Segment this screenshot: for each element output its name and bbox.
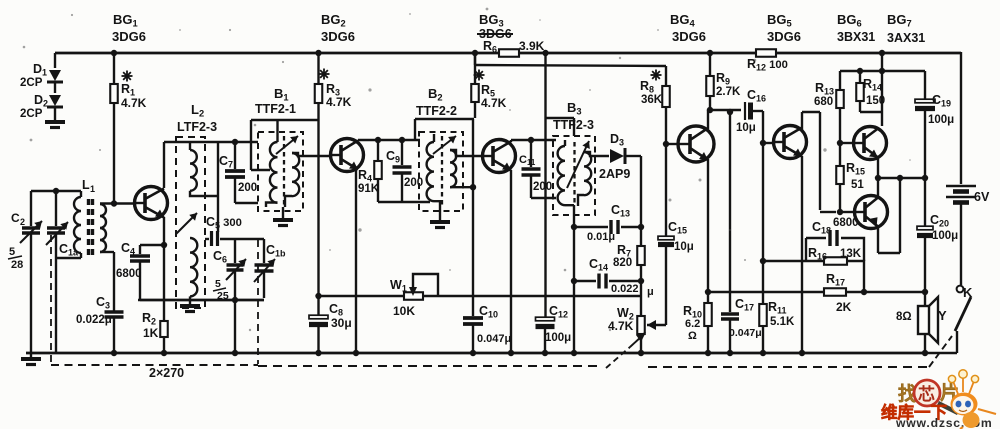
svg-text:5.1K: 5.1K bbox=[770, 316, 795, 328]
wire collector tap down to C5 bbox=[217, 142, 219, 232]
dashed link volume switch line bbox=[258, 365, 601, 367]
svg-text:4.7K: 4.7K bbox=[121, 96, 147, 110]
resistor R5 4.7K bbox=[474, 53, 476, 84]
svg-text:5: 5 bbox=[215, 278, 221, 290]
capacitor C14 0.022u bbox=[574, 280, 596, 282]
svg-text:4.7K: 4.7K bbox=[608, 319, 634, 333]
svg-text:TTF2-3: TTF2-3 bbox=[553, 118, 594, 132]
svg-text:0.01μ: 0.01μ bbox=[587, 231, 615, 243]
variable capacitor C1b bbox=[263, 239, 265, 263]
capacitor C7 200 bbox=[234, 142, 236, 169]
resistor R2 1K bbox=[160, 321, 168, 337]
transformer B3 tuning arrow bbox=[567, 141, 589, 188]
wire L1 primary top bbox=[80, 191, 82, 197]
svg-text:100μ: 100μ bbox=[932, 230, 958, 242]
wire base node down through R11 bbox=[762, 143, 764, 304]
svg-text:36K: 36K bbox=[641, 94, 663, 106]
wire B3 tap down bbox=[573, 227, 575, 353]
svg-text:2: 2 bbox=[20, 217, 25, 227]
resistor R1 4.7K bbox=[113, 53, 115, 84]
transistor BG2 bbox=[331, 139, 364, 172]
dashed gang box right edge bbox=[257, 240, 259, 364]
transformer B1 secondary winding bbox=[292, 153, 299, 196]
wire output node bbox=[877, 158, 879, 198]
wire C4 bottom to oscillator section bbox=[140, 299, 264, 301]
transformer B2 TTF2-2 dashed box bbox=[419, 132, 463, 211]
svg-text:Y: Y bbox=[938, 308, 947, 323]
transistor BG4 bbox=[678, 126, 714, 162]
svg-text:820: 820 bbox=[613, 257, 632, 269]
resistor R17 2K bbox=[824, 288, 846, 296]
svg-text:200: 200 bbox=[238, 182, 257, 194]
node BG7 base bbox=[837, 209, 843, 215]
wire output line R17 bbox=[708, 291, 824, 293]
svg-text:100μ: 100μ bbox=[545, 332, 571, 344]
node rail-BG6 bbox=[879, 50, 885, 56]
svg-text:3DG6: 3DG6 bbox=[767, 29, 801, 44]
resistor R4 91K bbox=[377, 140, 379, 161]
ground below B2 bbox=[430, 220, 450, 224]
svg-text:L: L bbox=[82, 178, 90, 192]
transistor BG5 bbox=[774, 126, 807, 159]
svg-text:10μ: 10μ bbox=[674, 241, 694, 253]
svg-text:3DG6: 3DG6 bbox=[321, 29, 355, 44]
potentiometer W2 4.7K body bbox=[637, 316, 645, 334]
capacitor C10 0.047u bbox=[472, 119, 474, 316]
transformer B3 TTF2-3 dashed box bbox=[553, 136, 595, 215]
svg-text:6V: 6V bbox=[974, 190, 990, 204]
capacitor C17 0.047u bbox=[729, 112, 731, 312]
potentiometer W1 10K body bbox=[404, 292, 423, 300]
svg-text:3DG6: 3DG6 bbox=[112, 29, 146, 44]
node BG6 base bbox=[837, 140, 843, 146]
svg-text:51: 51 bbox=[851, 179, 864, 191]
wire BG1 emitter down bbox=[163, 217, 165, 321]
wire B1 primary tap loop bbox=[251, 169, 270, 171]
capacitor C4 6800 bbox=[140, 244, 164, 246]
switch K bbox=[957, 286, 964, 293]
svg-text:0.047μ: 0.047μ bbox=[729, 327, 762, 339]
coil L2 LTF2-3 dashed box bbox=[176, 137, 205, 308]
transistor BG6 bbox=[854, 127, 887, 160]
wire BG7 emitter loop bbox=[877, 226, 879, 253]
svg-text:C: C bbox=[11, 211, 20, 225]
resistor R7 820 bbox=[637, 246, 645, 265]
svg-text:6.2: 6.2 bbox=[685, 318, 700, 330]
ground at L2 bottom bbox=[189, 300, 191, 304]
svg-text:TTF2-1: TTF2-1 bbox=[255, 102, 296, 116]
svg-text:1K: 1K bbox=[143, 326, 159, 340]
capacitor C15 10u AGC bbox=[658, 236, 674, 240]
svg-text:680: 680 bbox=[814, 96, 833, 108]
wire top supply rail left segment bbox=[55, 52, 500, 55]
wire top supply rail right segment bbox=[519, 52, 961, 55]
wire BG2 collector bbox=[357, 140, 359, 141]
svg-text:10μ: 10μ bbox=[736, 122, 756, 134]
potentiometer W2 wiper arrow bbox=[665, 246, 667, 325]
wire battery negative to switch bbox=[960, 206, 962, 285]
capacitor C16 10u coupling bbox=[744, 102, 746, 120]
wire antenna top bbox=[31, 190, 81, 192]
svg-text:TTF2-2: TTF2-2 bbox=[416, 104, 457, 118]
node C11 top bbox=[528, 137, 534, 143]
node C13 right bbox=[638, 224, 644, 230]
dashed link right segment bbox=[648, 366, 929, 368]
capacitor C3 0.022u bbox=[105, 310, 124, 313]
transformer B3 secondary winding bbox=[584, 152, 591, 195]
wire BG4 base bbox=[666, 143, 679, 145]
svg-text:0.022μ: 0.022μ bbox=[76, 314, 112, 326]
dashed gang box left edge bbox=[50, 235, 52, 364]
svg-text:100μ: 100μ bbox=[928, 114, 954, 126]
watermark magnifier handle bbox=[938, 403, 958, 413]
wire L2 upper winding bottom to C5 bbox=[190, 191, 218, 196]
ground symbol at left end of bus bbox=[30, 353, 32, 357]
wire oscillator bottom return bbox=[138, 299, 264, 301]
resistor R10 6.2 ohm bbox=[704, 303, 712, 326]
wire rail to diode branch bbox=[54, 53, 56, 68]
svg-text:2CP: 2CP bbox=[20, 77, 43, 89]
coil L2 lower winding bbox=[190, 238, 197, 296]
wire B1 secondary to BG2 base bbox=[292, 153, 331, 156]
node rail-R3 bbox=[315, 50, 321, 56]
wire BG2 emitter down to bus bbox=[355, 169, 357, 353]
transformer B3 primary winding bbox=[558, 146, 565, 205]
resistor R6 3.9K in series with rail bbox=[499, 49, 519, 57]
watermark find-chip logo text bbox=[881, 370, 996, 429]
node BG4 base bbox=[663, 141, 669, 147]
wire L1 secondary top to BG1 base bbox=[100, 202, 135, 204]
wire bottom ground bus bbox=[26, 352, 923, 355]
dashed arrow to W2 bbox=[606, 347, 630, 368]
wire BG5 collector to bases chain bbox=[801, 112, 803, 130]
wire B3 secondary top to D3 bbox=[584, 152, 609, 156]
svg-text:R12 100: R12 100 bbox=[747, 57, 788, 73]
trimmer capacitor C6 5/25 bbox=[234, 239, 236, 263]
node rail-R5 bbox=[472, 50, 478, 56]
node R16 tee bbox=[760, 258, 766, 264]
capacitor C20 100u bbox=[924, 178, 926, 226]
node rail-right-of-R6 bbox=[542, 50, 548, 56]
node rail-R1 bbox=[111, 50, 117, 56]
transformer B1 tuning arrow bbox=[276, 136, 298, 154]
svg-text:3AX31: 3AX31 bbox=[887, 31, 925, 45]
svg-text:200: 200 bbox=[533, 181, 552, 193]
wire detector output down bbox=[640, 156, 642, 246]
svg-text:10K: 10K bbox=[393, 304, 415, 318]
svg-text:30μ: 30μ bbox=[331, 316, 352, 330]
wire rail to BG6 collector bbox=[881, 53, 883, 126]
potentiometer W1 wiper loop bbox=[413, 274, 438, 296]
capacitor C8 30u bbox=[317, 120, 319, 315]
variable capacitor C2 bbox=[30, 191, 32, 226]
wire B2 primary bottom to ground bbox=[434, 201, 440, 220]
diode D1 2CP bbox=[49, 70, 61, 81]
capacitor C19 100u bbox=[924, 71, 926, 99]
wire BG1 collector to C7 bbox=[164, 141, 258, 143]
svg-text:2CP: 2CP bbox=[20, 108, 43, 120]
wire L1 secondary bottom down bbox=[113, 252, 115, 311]
wire AGC to BG4 base node bbox=[665, 107, 667, 195]
wire switch to bus bbox=[956, 331, 958, 353]
resistor R8 36K bbox=[662, 86, 670, 107]
node BG5 base bbox=[760, 140, 766, 146]
scan noise specks bbox=[71, 14, 73, 16]
wire B3 bottom tap bbox=[573, 205, 575, 227]
wire R4 C9 bottom bbox=[378, 201, 430, 203]
wire R3 feed loop to B1 bbox=[317, 103, 319, 120]
wire L1 secondary bottom bbox=[100, 251, 114, 253]
resistor R9 2.7K bbox=[709, 53, 711, 76]
svg-text:LTF2-3: LTF2-3 bbox=[177, 120, 217, 134]
transformer B1 primary winding bbox=[270, 142, 278, 203]
transistor BG3 bbox=[483, 140, 516, 173]
dashed gang box bottom bbox=[51, 364, 258, 366]
svg-text:4.7K: 4.7K bbox=[326, 95, 352, 109]
wire upper branch y71 bbox=[840, 70, 925, 72]
capacitor C9 200 bbox=[401, 140, 403, 165]
svg-text:28: 28 bbox=[11, 259, 23, 271]
dashed arrow to switch K bbox=[929, 336, 952, 367]
resistor R3 4.7K bbox=[315, 84, 323, 103]
svg-text:4.7K: 4.7K bbox=[481, 96, 507, 110]
svg-text:3DG6: 3DG6 bbox=[672, 29, 706, 44]
svg-text:2K: 2K bbox=[836, 300, 852, 314]
svg-text:2.7K: 2.7K bbox=[716, 86, 741, 98]
diode D3 2AP9 bbox=[610, 149, 624, 163]
svg-text:0.047μ: 0.047μ bbox=[477, 333, 511, 345]
svg-text:μ: μ bbox=[647, 286, 654, 298]
transformer B3 core bbox=[573, 142, 575, 206]
battery 6V bbox=[946, 185, 976, 188]
svg-text:C5 300: C5 300 bbox=[206, 215, 242, 231]
wire B2 secondary to BG3 base bbox=[450, 150, 483, 156]
watermark mascot antennae bbox=[953, 377, 974, 394]
node rail-R9 bbox=[707, 50, 713, 56]
svg-text:Ω: Ω bbox=[688, 330, 697, 342]
speaker Y 8 ohm bbox=[924, 299, 926, 306]
node C9 top bbox=[399, 137, 405, 143]
capacitor C18 6800 with R16 13K feedback box bbox=[763, 260, 806, 262]
transistor BG1 bbox=[135, 187, 168, 220]
wire R5 to B2 collector node bbox=[415, 118, 474, 120]
svg-text:6800: 6800 bbox=[116, 268, 142, 280]
transformer B1 TTF2-1 dashed box bbox=[258, 132, 303, 211]
wire BG3 emitter down to bus bbox=[510, 170, 512, 353]
wire B3 primary bottom bbox=[565, 204, 574, 206]
diode D2 2CP bbox=[49, 95, 61, 106]
wire BG5 emitter to bus bbox=[801, 156, 803, 353]
transistor BG7 bbox=[855, 196, 888, 229]
node R4 top bbox=[375, 137, 381, 143]
variable capacitor C1a bbox=[55, 191, 57, 226]
capacitor C12 100u bbox=[544, 118, 546, 317]
wire C16 to BG5 base bbox=[762, 111, 764, 143]
node emitter-R17 bbox=[705, 289, 711, 295]
ground below D2 bbox=[45, 120, 65, 124]
wire L1 primary bottom bbox=[80, 253, 82, 258]
wire B1 primary bottom bbox=[266, 203, 278, 208]
transformer B2 primary winding bbox=[427, 142, 434, 201]
svg-text:5: 5 bbox=[9, 246, 15, 258]
transformer B2 secondary winding bbox=[450, 150, 456, 187]
node C7 top bbox=[232, 139, 238, 145]
wire B2 secondary bottom to AGC line bbox=[450, 186, 473, 188]
wire rail to B3 primary bbox=[544, 53, 546, 118]
coil L2 upper winding bbox=[189, 142, 191, 150]
node C14 left bbox=[571, 278, 577, 284]
transformer B2 tuning arrow bbox=[433, 136, 456, 154]
resistor R15 51 bbox=[839, 143, 841, 166]
watermark mascot head and body bbox=[951, 393, 978, 416]
wire B1 ground bbox=[282, 207, 284, 219]
wire right rail drop to battery bbox=[960, 52, 962, 184]
node C8 top bbox=[315, 293, 321, 299]
resistor R12 100 in rail bbox=[756, 49, 776, 57]
node C1a top bbox=[53, 188, 59, 194]
wire to ground bus from oscillator bbox=[234, 300, 236, 353]
node emitter-C4 bbox=[161, 242, 167, 248]
wire R8 feed from rail before R6 bbox=[474, 53, 476, 65]
svg-text:8Ω: 8Ω bbox=[896, 311, 912, 323]
wire BG4 collector node bbox=[707, 110, 709, 129]
wire BG7 base bbox=[840, 211, 855, 213]
wire BG3 collector bbox=[510, 140, 512, 142]
wire BG4 emitter down bbox=[707, 159, 709, 353]
svg-text:2×270: 2×270 bbox=[149, 366, 184, 380]
svg-text:0.022: 0.022 bbox=[611, 283, 639, 295]
resistor R13 680 bbox=[839, 71, 841, 90]
svg-text:6800: 6800 bbox=[833, 217, 859, 229]
svg-text:2AP9: 2AP9 bbox=[599, 167, 630, 181]
wire BG6 base bbox=[840, 142, 854, 144]
svg-text:芯: 芯 bbox=[918, 384, 935, 404]
capacitor C13 0.01u bbox=[574, 226, 608, 228]
resistor R11 5.1K bbox=[759, 304, 767, 326]
svg-text:K: K bbox=[963, 285, 973, 300]
capacitor C5 300 bbox=[210, 231, 213, 246]
capacitor C11 200 bbox=[530, 140, 532, 167]
transformer B1 core bbox=[283, 136, 285, 205]
svg-text:3BX31: 3BX31 bbox=[837, 30, 875, 44]
svg-text:1: 1 bbox=[90, 184, 95, 194]
wire AGC feedback bus bbox=[319, 295, 405, 297]
transformer B2 core bbox=[441, 136, 443, 205]
svg-text:91K: 91K bbox=[358, 183, 380, 195]
svg-text:13K: 13K bbox=[840, 248, 862, 260]
oscillator tuning arrow bbox=[176, 213, 197, 234]
wire BG1 collector up bbox=[163, 142, 165, 188]
svg-text:200: 200 bbox=[404, 177, 423, 189]
resistor R14 150 bbox=[859, 71, 861, 83]
svg-text:3.9K: 3.9K bbox=[519, 39, 545, 53]
